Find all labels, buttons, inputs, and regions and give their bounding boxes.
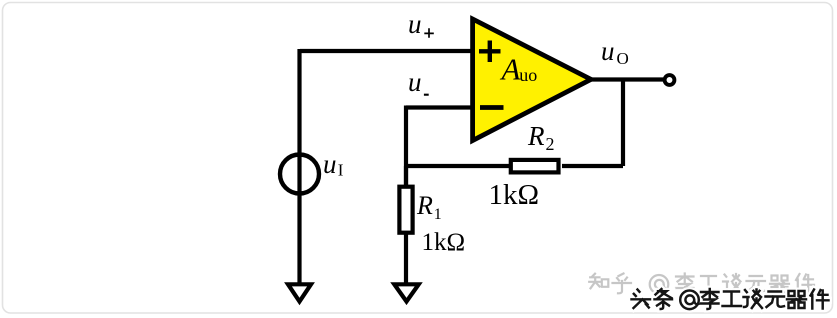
label u- bbox=[408, 67, 429, 97]
output terminal bbox=[665, 75, 675, 85]
ground (source) bbox=[288, 284, 311, 301]
label R1 value 1kOhm bbox=[422, 229, 466, 256]
label u+ bbox=[408, 9, 434, 39]
svg-text:uo: uo bbox=[519, 65, 537, 85]
label uO bbox=[601, 36, 629, 68]
op-amp minus pin mark bbox=[480, 105, 504, 110]
label R2 bbox=[527, 121, 555, 154]
svg-text:R: R bbox=[527, 121, 545, 151]
svg-text:u: u bbox=[323, 149, 337, 179]
wire source top bbox=[297, 49, 301, 154]
svg-text:u: u bbox=[408, 67, 422, 97]
ground (R1) bbox=[394, 284, 418, 301]
op-amp U1 bbox=[473, 19, 591, 141]
wire noninverting input bbox=[300, 49, 472, 53]
label Auo bbox=[500, 52, 538, 87]
svg-text:1: 1 bbox=[434, 206, 442, 223]
wire inverting input bbox=[406, 106, 473, 188]
svg-text:1kΩ: 1kΩ bbox=[489, 179, 540, 211]
label R2 value 1kOhm bbox=[489, 179, 540, 211]
svg-text:2: 2 bbox=[546, 134, 555, 154]
svg-text:1kΩ: 1kΩ bbox=[422, 229, 466, 256]
svg-text:I: I bbox=[338, 161, 344, 180]
wire feedback left bbox=[406, 164, 510, 168]
wire output bbox=[590, 77, 663, 81]
wire R1 bottom bbox=[404, 234, 408, 283]
wire source bottom bbox=[297, 193, 301, 283]
svg-text:u: u bbox=[408, 9, 422, 39]
svg-text:A: A bbox=[500, 52, 522, 87]
op-amp plus pin mark bbox=[479, 41, 501, 63]
resistor R1 bbox=[399, 187, 412, 233]
label uI bbox=[323, 149, 344, 180]
resistor R2 bbox=[511, 160, 559, 173]
wire feedback right bbox=[562, 80, 623, 167]
svg-text:O: O bbox=[617, 49, 629, 68]
wire R1 top bbox=[404, 166, 408, 188]
svg-text:R: R bbox=[416, 191, 433, 220]
label R1 bbox=[416, 191, 442, 223]
voltage source uI bbox=[280, 155, 319, 194]
svg-text:u: u bbox=[601, 36, 615, 66]
